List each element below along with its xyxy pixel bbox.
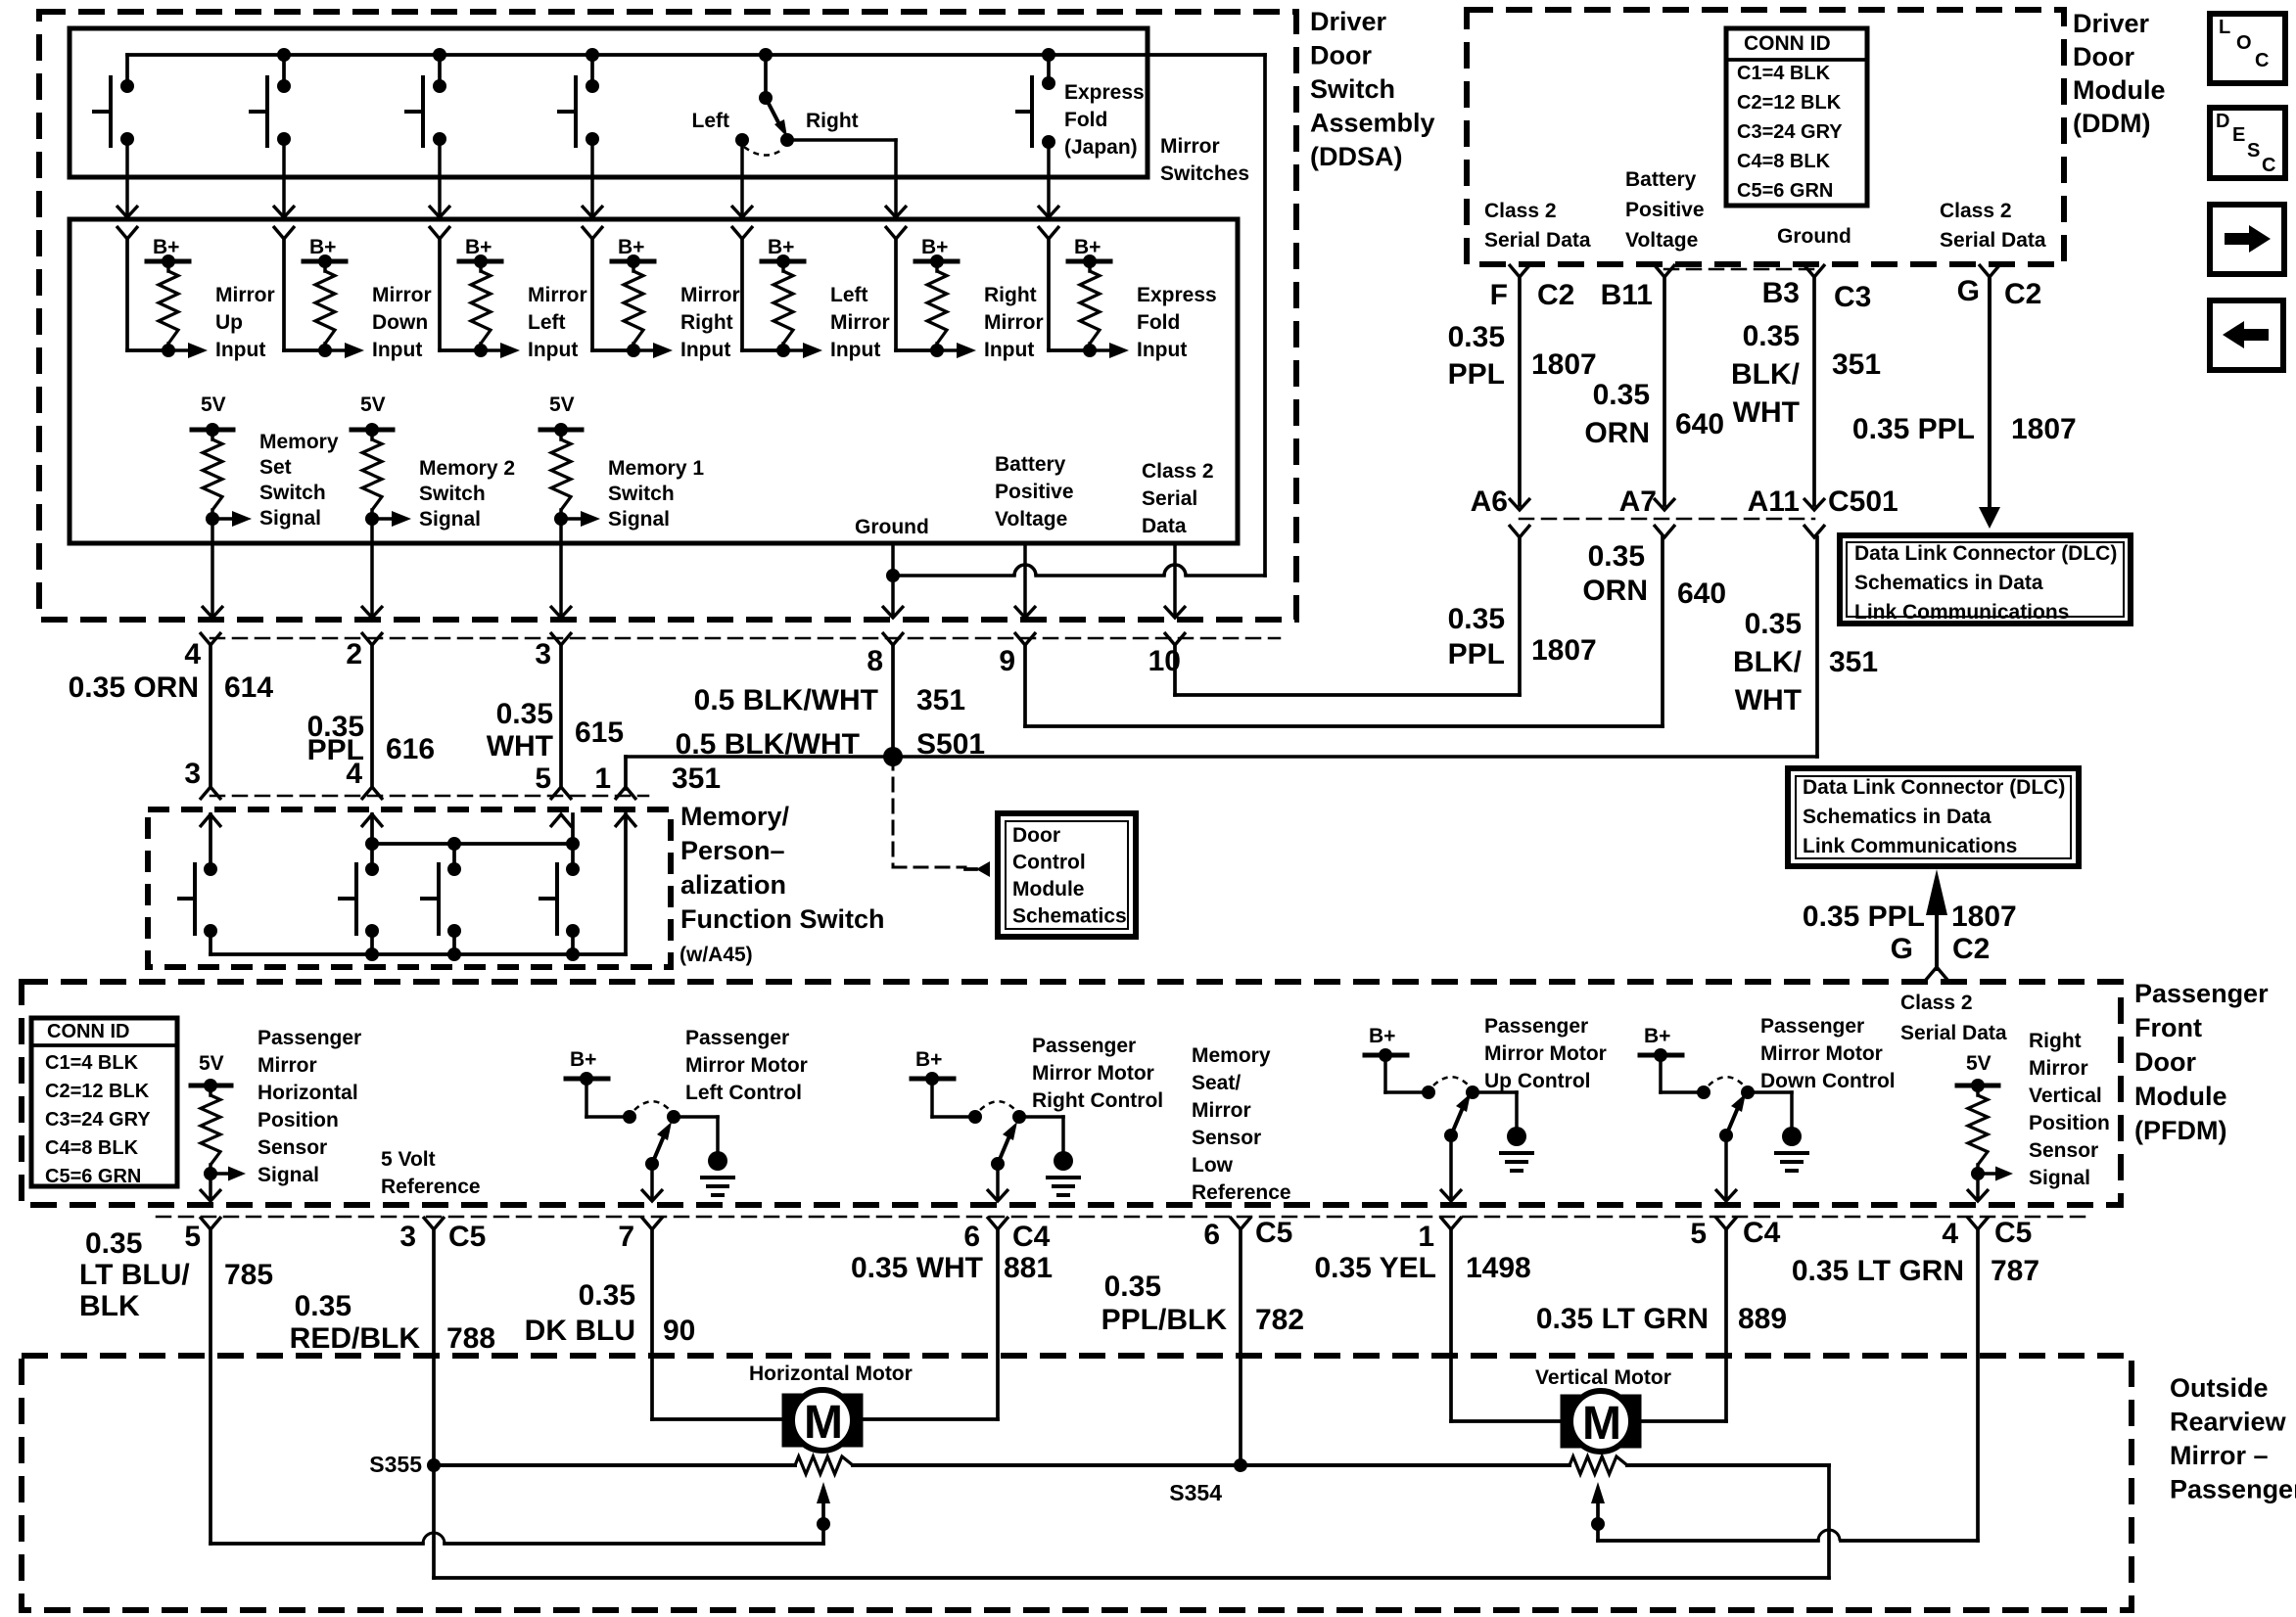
svg-text:Link Communications: Link Communications: [1803, 835, 2017, 857]
svg-text:Mirror Motor: Mirror Motor: [685, 1054, 808, 1077]
svg-text:C2: C2: [1537, 279, 1574, 311]
svg-text:5: 5: [1690, 1218, 1707, 1250]
svg-text:6: 6: [1203, 1219, 1220, 1251]
svg-text:M: M: [1582, 1398, 1621, 1450]
svg-text:(w/A45): (w/A45): [679, 944, 753, 966]
svg-text:Passenger: Passenger: [1484, 1015, 1588, 1038]
svg-text:90: 90: [663, 1315, 695, 1347]
svg-text:ORN: ORN: [1582, 575, 1648, 607]
svg-text:Horizontal: Horizontal: [258, 1082, 358, 1104]
svg-text:Switch: Switch: [419, 483, 486, 505]
svg-text:1807: 1807: [1951, 901, 2017, 933]
svg-text:Module: Module: [2073, 75, 2166, 105]
svg-text:Mirror: Mirror: [372, 284, 432, 306]
svg-text:2: 2: [346, 638, 362, 670]
svg-text:Down: Down: [372, 311, 428, 334]
svg-text:Reference: Reference: [381, 1176, 481, 1198]
svg-text:Signal: Signal: [259, 507, 321, 530]
svg-text:5 Volt: 5 Volt: [381, 1148, 436, 1171]
svg-text:G: G: [1891, 933, 1913, 965]
svg-text:Right: Right: [2029, 1030, 2082, 1052]
svg-text:Door: Door: [1310, 41, 1372, 70]
svg-text:A7: A7: [1619, 485, 1657, 518]
svg-text:0.35: 0.35: [1104, 1270, 1161, 1303]
svg-text:S355: S355: [369, 1452, 422, 1477]
svg-text:Assembly: Assembly: [1310, 109, 1435, 138]
svg-text:Sensor: Sensor: [1192, 1127, 1261, 1149]
svg-text:Low: Low: [1192, 1154, 1234, 1177]
svg-text:C2: C2: [1952, 933, 1990, 965]
svg-text:Memory 1: Memory 1: [608, 457, 704, 480]
svg-text:C501: C501: [1828, 485, 1898, 518]
svg-text:0.35 WHT: 0.35 WHT: [851, 1252, 983, 1284]
svg-text:Serial Data: Serial Data: [1484, 229, 1591, 252]
svg-text:Passenger: Passenger: [258, 1027, 361, 1049]
svg-text:Front: Front: [2134, 1013, 2202, 1042]
svg-text:Mirror: Mirror: [830, 311, 890, 334]
svg-text:B+: B+: [768, 236, 794, 258]
svg-text:B11: B11: [1601, 279, 1653, 311]
svg-text:C3=24 GRY: C3=24 GRY: [45, 1109, 151, 1131]
svg-text:1807: 1807: [1531, 348, 1597, 381]
svg-text:351: 351: [1832, 348, 1881, 381]
svg-text:BLK/: BLK/: [1731, 358, 1801, 391]
svg-text:1498: 1498: [1466, 1252, 1531, 1284]
svg-text:9: 9: [999, 645, 1015, 677]
svg-text:A11: A11: [1748, 485, 1800, 518]
svg-text:Input: Input: [372, 339, 422, 361]
svg-text:Mirror –: Mirror –: [2170, 1441, 2269, 1470]
svg-text:1: 1: [594, 762, 611, 795]
svg-text:351: 351: [916, 684, 965, 716]
svg-text:616: 616: [386, 733, 435, 765]
svg-text:Passenger: Passenger: [1032, 1035, 1136, 1057]
svg-text:Mirror: Mirror: [1160, 135, 1220, 158]
svg-text:Mirror: Mirror: [1192, 1099, 1251, 1122]
svg-text:Mirror Motor: Mirror Motor: [1032, 1062, 1154, 1085]
svg-text:A6: A6: [1471, 485, 1508, 518]
svg-text:Function Switch: Function Switch: [680, 904, 885, 934]
svg-text:0.35 PPL: 0.35 PPL: [1852, 413, 1975, 445]
svg-text:Class 2: Class 2: [1484, 200, 1557, 222]
svg-text:351: 351: [672, 762, 721, 795]
svg-text:Up Control: Up Control: [1484, 1070, 1590, 1092]
svg-text:B+: B+: [921, 236, 948, 258]
svg-text:Input: Input: [984, 339, 1034, 361]
svg-text:LT BLU/: LT BLU/: [79, 1259, 190, 1291]
svg-text:Mirror: Mirror: [258, 1054, 317, 1077]
svg-text:Positive: Positive: [995, 481, 1074, 503]
svg-text:Input: Input: [680, 339, 730, 361]
svg-text:0.35 LT GRN: 0.35 LT GRN: [1536, 1303, 1709, 1335]
svg-text:C2=12 BLK: C2=12 BLK: [1737, 92, 1842, 114]
svg-text:C5: C5: [1255, 1217, 1292, 1249]
svg-text:BLK/: BLK/: [1733, 646, 1803, 678]
svg-text:C5: C5: [448, 1221, 486, 1253]
svg-text:Door: Door: [2073, 42, 2134, 71]
svg-text:Door: Door: [1012, 824, 1060, 847]
svg-text:C3: C3: [1834, 281, 1871, 313]
svg-text:Mirror: Mirror: [984, 311, 1044, 334]
svg-text:Position: Position: [258, 1109, 339, 1132]
svg-text:B+: B+: [1074, 236, 1101, 258]
svg-text:0.35: 0.35: [1588, 540, 1645, 573]
svg-text:C4: C4: [1012, 1221, 1051, 1253]
svg-text:Up: Up: [215, 311, 243, 334]
svg-text:CONN ID: CONN ID: [47, 1021, 129, 1042]
svg-text:3: 3: [184, 758, 201, 790]
svg-text:Mirror Motor: Mirror Motor: [1760, 1042, 1883, 1065]
svg-text:B3: B3: [1762, 277, 1800, 309]
svg-text:Class 2: Class 2: [1142, 460, 1214, 483]
svg-text:Seat/: Seat/: [1192, 1072, 1241, 1094]
svg-text:Voltage: Voltage: [995, 508, 1067, 531]
svg-text:785: 785: [224, 1259, 273, 1291]
svg-text:0.35 YEL: 0.35 YEL: [1314, 1252, 1436, 1284]
svg-text:Input: Input: [1137, 339, 1187, 361]
svg-text:0.35: 0.35: [579, 1279, 635, 1312]
svg-text:Switch: Switch: [259, 482, 326, 504]
svg-text:B+: B+: [915, 1048, 942, 1071]
svg-text:G: G: [1957, 275, 1980, 307]
svg-text:B+: B+: [1369, 1025, 1395, 1047]
svg-text:Right: Right: [806, 110, 859, 132]
svg-text:3: 3: [535, 638, 551, 670]
svg-text:Reference: Reference: [1192, 1181, 1291, 1204]
svg-text:Sensor: Sensor: [258, 1136, 327, 1159]
svg-text:1: 1: [1418, 1221, 1434, 1253]
svg-text:L: L: [2219, 17, 2230, 38]
svg-text:4: 4: [346, 758, 362, 790]
svg-text:889: 889: [1738, 1303, 1787, 1335]
svg-text:640: 640: [1675, 408, 1724, 440]
svg-text:0.35: 0.35: [85, 1227, 142, 1260]
svg-text:PPL/BLK: PPL/BLK: [1101, 1304, 1228, 1336]
svg-text:1807: 1807: [1531, 634, 1597, 667]
svg-text:C1=4 BLK: C1=4 BLK: [1737, 63, 1831, 84]
svg-text:Vertical Motor: Vertical Motor: [1535, 1366, 1671, 1389]
svg-text:Set: Set: [259, 456, 292, 479]
svg-text:B+: B+: [570, 1048, 596, 1071]
svg-text:C5=6 GRN: C5=6 GRN: [45, 1166, 141, 1187]
svg-text:S354: S354: [1169, 1480, 1222, 1505]
svg-text:Ground: Ground: [1777, 225, 1851, 248]
svg-text:DK BLU: DK BLU: [525, 1315, 635, 1347]
svg-text:Switches: Switches: [1160, 162, 1249, 185]
svg-text:Vertical: Vertical: [2029, 1085, 2102, 1107]
svg-text:(DDM): (DDM): [2073, 109, 2150, 138]
svg-text:C1=4 BLK: C1=4 BLK: [45, 1052, 139, 1074]
svg-text:782: 782: [1255, 1304, 1304, 1336]
svg-text:O: O: [2236, 32, 2252, 54]
svg-text:Switch: Switch: [1310, 74, 1395, 104]
svg-text:5V: 5V: [201, 393, 226, 416]
svg-text:Battery: Battery: [1625, 168, 1697, 191]
svg-text:0.35: 0.35: [295, 1290, 351, 1322]
svg-text:Module: Module: [1012, 878, 1085, 901]
svg-text:Link Communications: Link Communications: [1854, 601, 2069, 624]
svg-text:Battery: Battery: [995, 453, 1066, 476]
svg-text:3: 3: [399, 1221, 416, 1253]
svg-text:CONN ID: CONN ID: [1744, 32, 1831, 55]
svg-text:F: F: [1490, 279, 1508, 311]
svg-text:Voltage: Voltage: [1625, 229, 1698, 252]
svg-text:Passenger: Passenger: [685, 1027, 789, 1049]
svg-text:Outside: Outside: [2170, 1373, 2269, 1403]
svg-text:PPL: PPL: [1448, 638, 1505, 670]
svg-text:0.35: 0.35: [1743, 320, 1800, 352]
svg-text:351: 351: [1829, 646, 1878, 678]
svg-text:alization: alization: [680, 870, 786, 900]
svg-text:Left: Left: [528, 311, 566, 334]
svg-text:Serial: Serial: [1142, 487, 1197, 510]
svg-text:787: 787: [1991, 1255, 2039, 1287]
svg-text:5V: 5V: [360, 393, 386, 416]
svg-text:Class 2: Class 2: [1940, 200, 2012, 222]
svg-text:0.35 LT GRN: 0.35 LT GRN: [1792, 1255, 1964, 1287]
svg-text:B+: B+: [153, 236, 179, 258]
svg-text:Control: Control: [1012, 852, 1086, 874]
svg-text:0.35 PPL: 0.35 PPL: [1803, 901, 1925, 933]
svg-text:Right: Right: [984, 284, 1037, 306]
svg-text:Memory/: Memory/: [680, 802, 790, 831]
svg-text:614: 614: [224, 671, 273, 704]
svg-text:Schematics in Data: Schematics in Data: [1854, 572, 2043, 594]
svg-text:(DDSA): (DDSA): [1310, 142, 1403, 171]
svg-text:Memory: Memory: [1192, 1044, 1271, 1067]
svg-text:Schematics: Schematics: [1012, 905, 1127, 928]
svg-text:4: 4: [184, 638, 201, 670]
svg-text:B+: B+: [465, 236, 492, 258]
svg-text:B+: B+: [618, 236, 644, 258]
svg-text:C4=8 BLK: C4=8 BLK: [45, 1137, 139, 1159]
svg-text:C5: C5: [1994, 1217, 2032, 1249]
svg-text:PPL: PPL: [1448, 358, 1505, 391]
svg-text:Express: Express: [1064, 81, 1145, 104]
svg-text:788: 788: [446, 1322, 495, 1355]
svg-text:0.35: 0.35: [1745, 608, 1802, 640]
svg-text:B+: B+: [309, 236, 336, 258]
svg-text:Left: Left: [692, 110, 730, 132]
svg-text:(Japan): (Japan): [1064, 136, 1138, 159]
svg-text:7: 7: [618, 1221, 634, 1253]
svg-text:Express: Express: [1137, 284, 1217, 306]
svg-text:0.35: 0.35: [1593, 379, 1650, 411]
svg-text:Signal: Signal: [608, 508, 670, 531]
svg-text:8: 8: [867, 645, 883, 677]
svg-text:Data Link Connector (DLC): Data Link Connector (DLC): [1803, 776, 2065, 799]
svg-text:5V: 5V: [1966, 1052, 1991, 1075]
svg-text:Mirror: Mirror: [680, 284, 740, 306]
svg-text:4: 4: [1942, 1218, 1958, 1250]
svg-text:Signal: Signal: [2029, 1167, 2090, 1189]
svg-text:Memory: Memory: [259, 431, 339, 453]
svg-text:Passenger: Passenger: [2134, 979, 2269, 1008]
svg-text:Passenger: Passenger: [2170, 1475, 2296, 1504]
svg-text:M: M: [804, 1397, 843, 1449]
svg-text:Input: Input: [830, 339, 880, 361]
svg-text:Mirror Motor: Mirror Motor: [1484, 1042, 1607, 1065]
svg-text:Class 2: Class 2: [1900, 992, 1973, 1014]
svg-text:0.35: 0.35: [496, 698, 553, 730]
svg-text:Signal: Signal: [258, 1164, 319, 1186]
svg-text:Data Link Connector (DLC): Data Link Connector (DLC): [1854, 542, 2117, 565]
svg-text:B+: B+: [1644, 1025, 1670, 1047]
svg-text:C3=24 GRY: C3=24 GRY: [1737, 121, 1843, 143]
svg-text:Signal: Signal: [419, 508, 481, 531]
svg-text:Fold: Fold: [1064, 109, 1107, 131]
svg-text:Input: Input: [528, 339, 578, 361]
svg-text:E: E: [2232, 124, 2245, 146]
svg-text:Fold: Fold: [1137, 311, 1180, 334]
svg-text:Data: Data: [1142, 515, 1187, 537]
svg-text:C2=12 BLK: C2=12 BLK: [45, 1081, 150, 1102]
svg-text:Down Control: Down Control: [1760, 1070, 1896, 1092]
svg-text:Right: Right: [680, 311, 733, 334]
svg-text:Mirror: Mirror: [528, 284, 587, 306]
svg-text:Sensor: Sensor: [2029, 1139, 2098, 1162]
svg-text:Serial Data: Serial Data: [1940, 229, 2046, 252]
svg-text:Rearview: Rearview: [2170, 1408, 2287, 1437]
svg-text:0.35: 0.35: [1448, 321, 1505, 353]
svg-text:(PFDM): (PFDM): [2134, 1116, 2226, 1145]
svg-text:WHT: WHT: [1735, 684, 1802, 716]
svg-text:Serial Data: Serial Data: [1900, 1022, 2007, 1044]
svg-text:C: C: [2255, 50, 2269, 71]
svg-text:Right Control: Right Control: [1032, 1089, 1163, 1112]
svg-text:C4=8 BLK: C4=8 BLK: [1737, 151, 1831, 172]
svg-text:Switch: Switch: [608, 483, 675, 505]
svg-text:C5=6 GRN: C5=6 GRN: [1737, 180, 1833, 202]
svg-text:Position: Position: [2029, 1112, 2110, 1134]
svg-text:C2: C2: [2004, 278, 2041, 310]
svg-text:Door: Door: [2134, 1047, 2196, 1077]
svg-text:ORN: ORN: [1584, 417, 1650, 449]
svg-text:Positive: Positive: [1625, 199, 1705, 221]
svg-text:Mirror: Mirror: [2029, 1057, 2088, 1080]
svg-text:640: 640: [1677, 577, 1726, 610]
svg-text:BLK: BLK: [79, 1290, 140, 1322]
svg-text:C4: C4: [1743, 1217, 1781, 1249]
svg-text:WHT: WHT: [487, 730, 553, 762]
svg-text:Schematics in Data: Schematics in Data: [1803, 806, 1991, 828]
svg-text:Passenger: Passenger: [1760, 1015, 1864, 1038]
svg-text:S: S: [2247, 140, 2260, 162]
svg-text:WHT: WHT: [1733, 396, 1800, 429]
svg-text:Left: Left: [830, 284, 868, 306]
svg-text:Module: Module: [2134, 1082, 2227, 1111]
svg-text:RED/BLK: RED/BLK: [290, 1322, 421, 1355]
svg-text:881: 881: [1004, 1252, 1053, 1284]
svg-text:Mirror: Mirror: [215, 284, 275, 306]
svg-text:Input: Input: [215, 339, 265, 361]
svg-text:5: 5: [535, 762, 551, 795]
svg-text:0.35 ORN: 0.35 ORN: [69, 671, 199, 704]
svg-text:C: C: [2262, 155, 2275, 176]
svg-text:D: D: [2216, 111, 2229, 132]
svg-text:5V: 5V: [549, 393, 575, 416]
svg-text:615: 615: [575, 716, 624, 749]
svg-text:Horizontal Motor: Horizontal Motor: [749, 1363, 913, 1385]
svg-text:Person–: Person–: [680, 836, 785, 865]
svg-text:5V: 5V: [199, 1052, 224, 1075]
svg-text:Driver: Driver: [2073, 9, 2150, 38]
svg-text:Ground: Ground: [855, 516, 929, 538]
svg-text:Left Control: Left Control: [685, 1082, 802, 1104]
svg-text:Memory 2: Memory 2: [419, 457, 515, 480]
svg-text:1807: 1807: [2011, 413, 2077, 445]
svg-text:Driver: Driver: [1310, 7, 1387, 36]
svg-text:5: 5: [184, 1221, 201, 1253]
svg-text:0.5 BLK/WHT: 0.5 BLK/WHT: [694, 684, 878, 716]
svg-text:6: 6: [963, 1221, 980, 1253]
svg-text:0.35: 0.35: [1448, 603, 1505, 635]
